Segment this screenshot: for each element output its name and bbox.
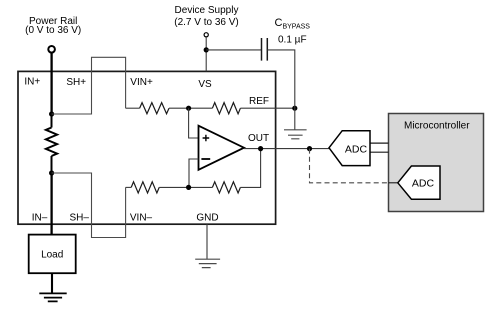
ADC 2 pentagon <box>398 166 440 199</box>
svg-text:Device Supply: Device Supply <box>175 5 239 16</box>
svg-text:VIN–: VIN– <box>130 212 153 223</box>
wire load to ground (thick) <box>51 273 53 293</box>
svg-text:(2.7 V to 36 V): (2.7 V to 36 V) <box>174 17 238 28</box>
wire supply to capacitor <box>206 49 261 51</box>
wire VIN+ to R1 <box>126 107 140 109</box>
svg-text:Microcontroller: Microcontroller <box>404 121 470 132</box>
wire REF node to ground <box>294 108 296 130</box>
microcontroller box <box>389 114 484 212</box>
resistor R4 <box>212 182 240 193</box>
svg-text:OUT: OUT <box>248 133 269 144</box>
svg-text:ADC: ADC <box>412 178 435 190</box>
node B (R3/R4 junction) <box>186 185 191 190</box>
device box U1 outline <box>18 71 276 224</box>
node A (R1/R2 junction) <box>186 106 191 111</box>
wire OUT <box>244 148 329 150</box>
node REF <box>292 106 297 111</box>
resistor R3 <box>131 182 159 193</box>
wire VS supply <box>205 37 207 71</box>
load box <box>29 235 76 274</box>
svg-text:GND: GND <box>196 212 218 223</box>
wire GND pin <box>206 224 208 259</box>
svg-text:REF: REF <box>249 96 269 107</box>
device supply terminal <box>204 33 208 37</box>
resistor R2 <box>212 103 240 114</box>
wire R3 to node B <box>159 186 212 188</box>
ground (REF) <box>284 130 307 139</box>
node IN+ top of shunt <box>49 111 54 116</box>
power rail terminal <box>48 46 55 53</box>
svg-text:Load: Load <box>41 250 63 261</box>
op-amp + sign <box>203 135 210 142</box>
svg-text:IN+: IN+ <box>24 77 40 88</box>
resistor RSHUNT (internal shunt) <box>46 114 57 173</box>
ground (load) <box>39 293 66 301</box>
node IN- bottom of shunt <box>49 170 54 175</box>
wire ADC2 stub <box>389 182 398 184</box>
wire capacitor to REF node <box>267 50 295 108</box>
node supply junction <box>204 47 209 52</box>
capacitor CBYPASS <box>262 38 268 61</box>
svg-text:VIN+: VIN+ <box>130 77 153 88</box>
svg-text:ADC: ADC <box>345 143 368 155</box>
wire R4 feedback to OUT node <box>240 149 260 188</box>
svg-text:SH–: SH– <box>70 212 90 223</box>
wire op-amp - input to node B <box>189 159 199 187</box>
node OUT external <box>307 146 312 151</box>
op-amp U1 <box>199 126 245 170</box>
svg-text:IN–: IN– <box>32 212 48 223</box>
svg-text:(0 V to 36 V): (0 V to 36 V) <box>25 25 81 36</box>
ground (GND pin) <box>195 259 220 267</box>
wire R1 to node A <box>169 107 212 109</box>
wire IN+ rail (thick) <box>50 53 52 114</box>
wire ADC1 bus lines <box>370 143 389 152</box>
op-amp - sign <box>201 158 210 160</box>
resistor R1 <box>140 103 169 114</box>
wire VIN- to R3 <box>126 186 132 188</box>
node OUT (feedback tap) <box>258 146 263 151</box>
svg-text:CBYPASS: CBYPASS <box>275 17 311 31</box>
svg-text:0.1 µF: 0.1 µF <box>278 34 307 45</box>
wire SH+ jumper (shunt top to VIN+) <box>52 57 126 114</box>
svg-text:SH+: SH+ <box>66 77 86 88</box>
wire REF out to ground node <box>240 107 294 109</box>
wire node A to op-amp + input <box>189 108 199 138</box>
wire dashed alternate ADC connection <box>310 149 389 183</box>
wire SH- jumper (shunt bottom to VIN-) <box>52 173 126 238</box>
ADC 1 pentagon <box>329 131 370 166</box>
wire IN- rail to load (thick) <box>50 173 52 235</box>
svg-text:VS: VS <box>198 79 212 90</box>
